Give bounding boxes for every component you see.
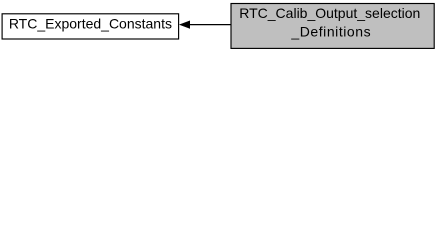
node RTC_Calib_Output_selection_Definitions (current, grey fill) xyxy=(231,4,434,49)
svg-text:_Definitions: _Definitions xyxy=(290,24,371,40)
arrowhead pointing left at RTC_Exported_Constants xyxy=(180,21,190,28)
wire: dependency edge shaft xyxy=(189,24,231,26)
node RTC_Exported_Constants xyxy=(2,14,179,39)
svg-text:RTC_Calib_Output_selection: RTC_Calib_Output_selection xyxy=(239,5,420,21)
svg-text:RTC_Exported_Constants: RTC_Exported_Constants xyxy=(9,16,172,32)
